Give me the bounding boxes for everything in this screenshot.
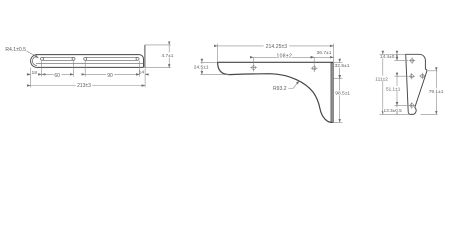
hole 1 [409,57,415,63]
dim 13.3±0.5 [396,105,398,114]
svg-text:60: 60 [54,73,60,79]
dim 14 [136,73,139,75]
svg-text:213±3: 213±3 [77,83,91,89]
svg-text:32.5±1: 32.5±1 [335,63,350,69]
leader R4.1 [27,51,39,58]
dim 18 [27,73,31,75]
dim 98.5±1 extension [334,121,343,123]
leg edge in top view [144,45,146,68]
dim 32.5±1 extensions [334,62,343,78]
svg-text:R93.2: R93.2 [273,86,287,92]
plate outline [406,54,427,114]
svg-text:18: 18 [31,70,37,76]
svg-text:108±2: 108±2 [276,54,292,60]
hole center 2 [311,64,318,72]
hole 2 left [409,73,415,79]
bar outline [31,55,144,68]
dim 14.4±0.5 [396,54,398,60]
extension lines row1 [31,61,146,88]
extension lines right view left side [380,54,411,114]
dim 36.7±1 [314,56,333,58]
svg-text:24.5±1: 24.5±1 [194,64,209,70]
svg-text:13.3±0.5: 13.3±0.5 [384,108,403,113]
dim 79.1±1 [435,71,437,115]
svg-text:98.5±1: 98.5±1 [335,91,350,97]
dim 32.5±1 [339,62,341,78]
dim 98.5±1 [339,79,341,123]
dim 79.1±1 extensions [421,71,438,115]
dim 60 [42,73,74,75]
svg-text:36.7±1: 36.7±1 [317,50,332,56]
dim 51.1±1 [396,76,398,105]
inner fold arc left cap [32,56,37,65]
slot 1 [42,57,74,60]
dim 111±2 [382,54,384,114]
svg-text:4.7±1: 4.7±1 [162,53,174,59]
leg plate edge-on [331,63,334,123]
slot 2 [85,57,137,60]
hole 2 right [419,73,425,79]
dim 24.5±1 extensions [201,62,229,74]
dim 4.7±1 [168,45,170,68]
dim 108±2 [254,56,315,58]
leader R93.2 [288,81,299,89]
svg-text:14.4±0.5: 14.4±0.5 [380,54,399,59]
dim 90 [85,73,139,75]
hole center 1 [250,64,257,72]
svg-text:214.25±3: 214.25±3 [266,44,288,50]
profile outline [218,62,334,122]
inner fold line [36,63,144,65]
svg-text:111±2: 111±2 [375,77,388,83]
hole 3 bottom [409,102,415,108]
svg-text:79.1±1: 79.1±1 [429,89,444,95]
svg-text:51.1±1: 51.1±1 [386,87,401,92]
svg-text:R4.1±0.5: R4.1±0.5 [5,47,26,53]
extension verticals middle [218,44,334,65]
dim 213±3 [31,85,146,87]
dim 214.25±3 [218,45,334,47]
svg-text:14: 14 [139,70,145,76]
dim 24.5±1 [201,62,203,74]
dim 4.7±1 extension lines [145,45,171,68]
svg-text:90: 90 [107,73,113,79]
